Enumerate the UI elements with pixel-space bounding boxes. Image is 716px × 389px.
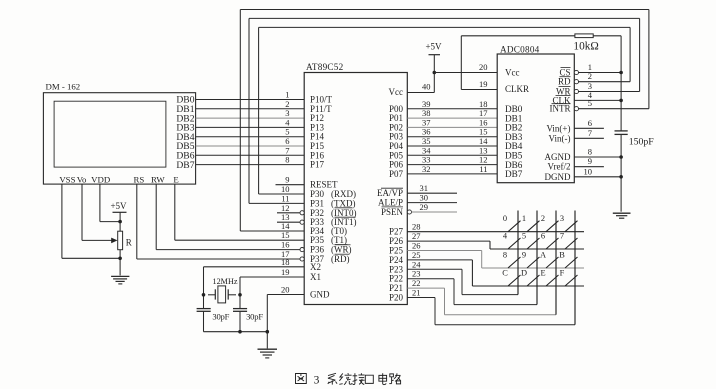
- wire CLKR pin19 to 10k resistor left: [461, 36, 575, 90]
- svg-text:3: 3: [560, 214, 564, 223]
- svg-text:30pF: 30pF: [212, 312, 229, 322]
- svg-text:10kΩ: 10kΩ: [573, 41, 598, 53]
- LCD module DS1 DM-162 outer box: [43, 93, 195, 184]
- wire ADC CLK pin4 to node: [574, 90, 621, 101]
- svg-text:P07: P07: [389, 169, 404, 179]
- svg-text:DB7: DB7: [176, 160, 194, 171]
- wire RW to P36/WR pin 16: [156, 184, 304, 252]
- svg-text:6: 6: [588, 118, 592, 128]
- U2 pin6 Vin(+) stub: [574, 118, 604, 129]
- MCU U1 AT89C52 box: [304, 73, 407, 305]
- svg-text:RW: RW: [151, 175, 165, 185]
- svg-text:A: A: [540, 251, 546, 260]
- svg-text:30pF: 30pF: [246, 312, 263, 322]
- LCD module DM-162 screen inner box: [54, 101, 166, 167]
- wire P00 pin 39 to ADC DB0 pin 18: [407, 99, 497, 109]
- wire Vcc pin40 to +5V: [407, 55, 434, 93]
- U2 left labels Vcc CLKR DB0-DB7: [505, 68, 529, 180]
- svg-text:R: R: [126, 237, 132, 247]
- wire P04 pin 35 to ADC DB4 pin 14: [407, 136, 497, 146]
- wire DB2 to P12 pin 3: [196, 108, 305, 118]
- wire resistor right to CLK vertical: [593, 36, 621, 131]
- U1 pin 9 RESET stub: [276, 175, 305, 185]
- wire Vo to potentiometer wiper: [82, 184, 118, 243]
- svg-text:GND: GND: [310, 290, 330, 300]
- junction dot rail/GND: [266, 330, 270, 334]
- svg-text:Vin(-): Vin(-): [549, 133, 571, 143]
- svg-text:AGND: AGND: [545, 152, 571, 162]
- U1 pin 30 ALE/P stub: [407, 193, 457, 203]
- label ADC0804: [500, 44, 540, 54]
- wire P20 pin 21 keypad column 4: [407, 288, 575, 325]
- wire crystal ground rail: [204, 331, 268, 333]
- wire RS to P37/RD pin 17: [137, 184, 304, 261]
- wire P23 pin 24 keypad column 1: [407, 259, 518, 294]
- svg-text:+5V: +5V: [110, 201, 127, 211]
- U1 pin 13 INT1 stub with circle: [277, 212, 304, 224]
- svg-text:Vcc: Vcc: [505, 68, 520, 78]
- svg-text:11: 11: [281, 193, 289, 203]
- junction dot C2/rail: [238, 330, 242, 334]
- key switch 9: [522, 251, 540, 269]
- svg-text:3: 3: [314, 375, 320, 387]
- wire ADC CS pin1 to node: [574, 62, 621, 75]
- svg-text:INTR: INTR: [550, 104, 571, 114]
- LCD data pin labels DB0-DB7: [176, 95, 194, 171]
- ground (LCD contrast): [111, 276, 129, 284]
- wire X2 pin18 to crystal left: [204, 257, 305, 308]
- svg-text:P17: P17: [310, 160, 325, 170]
- junction dot +5V/ADC Vcc: [433, 71, 437, 75]
- label AT89C52: [306, 62, 344, 72]
- wire P03 pin 36 to ADC DB3 pin 15: [407, 127, 497, 137]
- wire ADC INTR pin5: [574, 98, 649, 111]
- svg-text:21: 21: [412, 288, 421, 298]
- wire pot bottom to ground: [119, 250, 121, 276]
- capacitor C2 30pF: [233, 309, 263, 332]
- svg-text:E: E: [540, 269, 545, 278]
- svg-text:X2: X2: [310, 262, 321, 272]
- svg-text:20: 20: [479, 62, 488, 72]
- svg-text:1: 1: [522, 214, 526, 223]
- wire cap to ground run: [620, 134, 622, 211]
- svg-text:8: 8: [588, 147, 592, 157]
- svg-text:C: C: [502, 269, 508, 278]
- junction dot CS/CLK node: [619, 71, 623, 75]
- junction dot crystal right: [238, 293, 242, 297]
- svg-text:150pF: 150pF: [629, 136, 655, 147]
- svg-text:ADC0804: ADC0804: [500, 44, 540, 54]
- key switch 6: [541, 232, 559, 250]
- svg-text:Vcc: Vcc: [389, 87, 404, 97]
- svg-text:8: 8: [285, 155, 289, 165]
- svg-text:B: B: [559, 251, 565, 260]
- U1 right labels Vcc P00-P07 EA/VP ALE/P PSEN P27-P20: [377, 87, 404, 303]
- svg-text:0: 0: [503, 214, 507, 223]
- svg-text:PSEN: PSEN: [381, 207, 404, 217]
- svg-text:VDD: VDD: [91, 175, 110, 185]
- ground (ADC): [613, 213, 631, 218]
- svg-text:VSS: VSS: [59, 175, 75, 185]
- wire P34/T0 pin14 to ADC INTR pin5 (outer loop): [240, 10, 649, 232]
- svg-text:F: F: [560, 269, 565, 278]
- svg-text:5: 5: [588, 98, 592, 108]
- svg-text:E: E: [173, 175, 178, 185]
- svg-text:P20: P20: [389, 293, 404, 303]
- svg-text:8: 8: [503, 251, 507, 260]
- wire P02 pin 37 to ADC DB2 pin 16: [407, 117, 497, 127]
- key switch 0: [503, 214, 521, 232]
- wire P06 pin 33 to ADC DB6 pin 12: [407, 155, 497, 165]
- wire DB5 to P15 pin 6: [196, 136, 305, 146]
- label 10k: [573, 41, 598, 53]
- svg-text:12MHz: 12MHz: [212, 277, 237, 286]
- wire P01 pin 38 to ADC DB1 pin 17: [407, 108, 497, 118]
- wire ADC RD pin2: [574, 71, 630, 84]
- power +5V supply (ADC): [425, 42, 442, 55]
- U2 right labels CS RD WR CLK INTR Vin AGND Vref/2 DGND: [545, 68, 572, 182]
- svg-text:RD: RD: [558, 77, 571, 87]
- svg-text:6: 6: [541, 232, 545, 241]
- svg-text:7: 7: [588, 128, 592, 138]
- wire X1 pin19 to crystal right: [240, 267, 304, 308]
- U1 pin 29 PSEN stub with circle: [407, 202, 457, 214]
- svg-text:7: 7: [560, 232, 564, 241]
- key switch B: [559, 251, 577, 269]
- svg-text:DB7: DB7: [505, 169, 523, 179]
- wire P30/RXD pin10 to ADC RD pin2 (inner loop): [259, 27, 630, 194]
- U1 left labels P10-P17 RESET: [310, 95, 338, 190]
- wire ADC WR pin3: [574, 81, 639, 94]
- key switch 1: [522, 214, 540, 232]
- caption text 图 3 系统接口 电路: [296, 373, 401, 386]
- svg-text:Vref/2: Vref/2: [548, 162, 571, 172]
- wire DB4 to P14 pin 5: [196, 127, 305, 137]
- svg-text:AT89C52: AT89C52: [306, 62, 344, 72]
- svg-text:10: 10: [584, 166, 593, 176]
- svg-text:CLKR: CLKR: [505, 84, 529, 94]
- svg-text:19: 19: [479, 79, 488, 89]
- wire +5V to ADC Vcc pin 20: [434, 62, 497, 73]
- svg-text:+5V: +5V: [425, 42, 442, 52]
- junction dot crystal left: [202, 293, 206, 297]
- svg-text:DGND: DGND: [545, 172, 571, 182]
- wire P26 pin27 keypad row 2: [407, 231, 584, 249]
- svg-text:9: 9: [588, 156, 592, 166]
- svg-text:D: D: [521, 269, 527, 278]
- key switch A: [540, 251, 559, 269]
- potentiometer R: [118, 231, 132, 250]
- key switch 5: [522, 232, 540, 250]
- U1 pin 31 EA/VP stub: [407, 183, 457, 193]
- resistor R1 10k body: [575, 34, 593, 38]
- svg-text:29: 29: [420, 202, 429, 212]
- svg-text:18: 18: [281, 257, 290, 267]
- junction dot VDD/+5V: [118, 220, 122, 224]
- junction dot CLK node: [619, 99, 623, 103]
- key switch 3: [560, 214, 578, 232]
- wire P27 pin28 keypad row 1: [407, 222, 584, 232]
- U2 pin9 Vref/2 stub: [574, 156, 604, 167]
- crystal Y1 12MHz: [208, 277, 238, 303]
- wire GND pin20 down to rail: [267, 285, 304, 332]
- keypad column lines: [518, 211, 575, 325]
- svg-text:19: 19: [281, 267, 290, 277]
- wire E to P35/T1 pin 15: [175, 184, 304, 240]
- U1 pin 12 INT0 stub with circle: [277, 203, 304, 215]
- LCD bottom pin labels VSS Vo VDD RS RW E: [59, 175, 178, 185]
- key switch 7: [560, 232, 578, 250]
- key switch E: [540, 269, 558, 287]
- U2 pin7 Vin(-) stub: [574, 128, 604, 139]
- ADC U2 ADC0804 box: [497, 54, 574, 183]
- key switch 2: [541, 214, 559, 232]
- key switch 8: [503, 251, 521, 269]
- svg-text:40: 40: [422, 82, 431, 92]
- wire DB6 to P16 pin 7: [196, 145, 305, 155]
- svg-text:9: 9: [522, 251, 526, 260]
- svg-text:DM - 162: DM - 162: [46, 82, 81, 92]
- svg-text:5: 5: [522, 232, 526, 241]
- svg-text:2: 2: [541, 214, 545, 223]
- wire P05 pin 34 to ADC DB5 pin 13: [407, 145, 497, 155]
- key switch F: [560, 269, 578, 287]
- wire ADC AGND pin8: [574, 147, 621, 158]
- wire P24 pin25 keypad row 4: [407, 250, 584, 286]
- svg-text:2: 2: [588, 71, 592, 81]
- ground (crystal): [258, 349, 278, 358]
- svg-text:Vo: Vo: [77, 175, 87, 185]
- svg-text:(RD): (RD): [331, 254, 350, 264]
- svg-text:10: 10: [281, 184, 290, 194]
- key switch D: [521, 269, 540, 287]
- wire ADC DGND pin10: [574, 166, 621, 177]
- wire VDD to +5V rail: [100, 184, 120, 222]
- wire DB1 to P11 pin 2: [196, 99, 305, 109]
- junction dot AGND: [619, 155, 623, 159]
- wire P25 pin26 keypad row 3: [407, 241, 584, 269]
- wire P22 pin 23 keypad column 2: [407, 269, 537, 305]
- U1 left labels P30-P37 X2 X1 GND: [310, 189, 357, 300]
- wire P07 pin 32 to ADC DB7 pin 11: [407, 164, 497, 174]
- capacitor C3 150pF: [615, 131, 655, 147]
- svg-text:X1: X1: [310, 272, 321, 282]
- key switch 4: [503, 232, 521, 250]
- label DM-162: [46, 82, 81, 92]
- wire DB3 to P13 pin 4: [196, 117, 305, 127]
- wire P31/TXD pin11 to ADC WR pin3 (middle loop): [249, 18, 640, 203]
- svg-text:RS: RS: [134, 175, 145, 185]
- capacitor C1 30pF: [197, 309, 230, 332]
- svg-text:20: 20: [281, 285, 290, 295]
- key switch C: [502, 269, 520, 287]
- power +5V supply (LCD): [110, 201, 127, 231]
- wire DB7 to P17 pin 8: [196, 155, 305, 165]
- junction dot DGND: [619, 175, 623, 179]
- wire rail to ground: [266, 332, 268, 349]
- svg-text:32: 32: [422, 164, 431, 174]
- wire VSS to pot bottom: [62, 184, 120, 258]
- svg-text:Vin(+): Vin(+): [546, 123, 570, 133]
- wire P21 pin 22 keypad column 3: [407, 278, 556, 315]
- junction dot VSS/pot: [118, 257, 122, 261]
- svg-text:11: 11: [479, 164, 487, 174]
- wire DB0 to P10 pin 1: [196, 90, 305, 100]
